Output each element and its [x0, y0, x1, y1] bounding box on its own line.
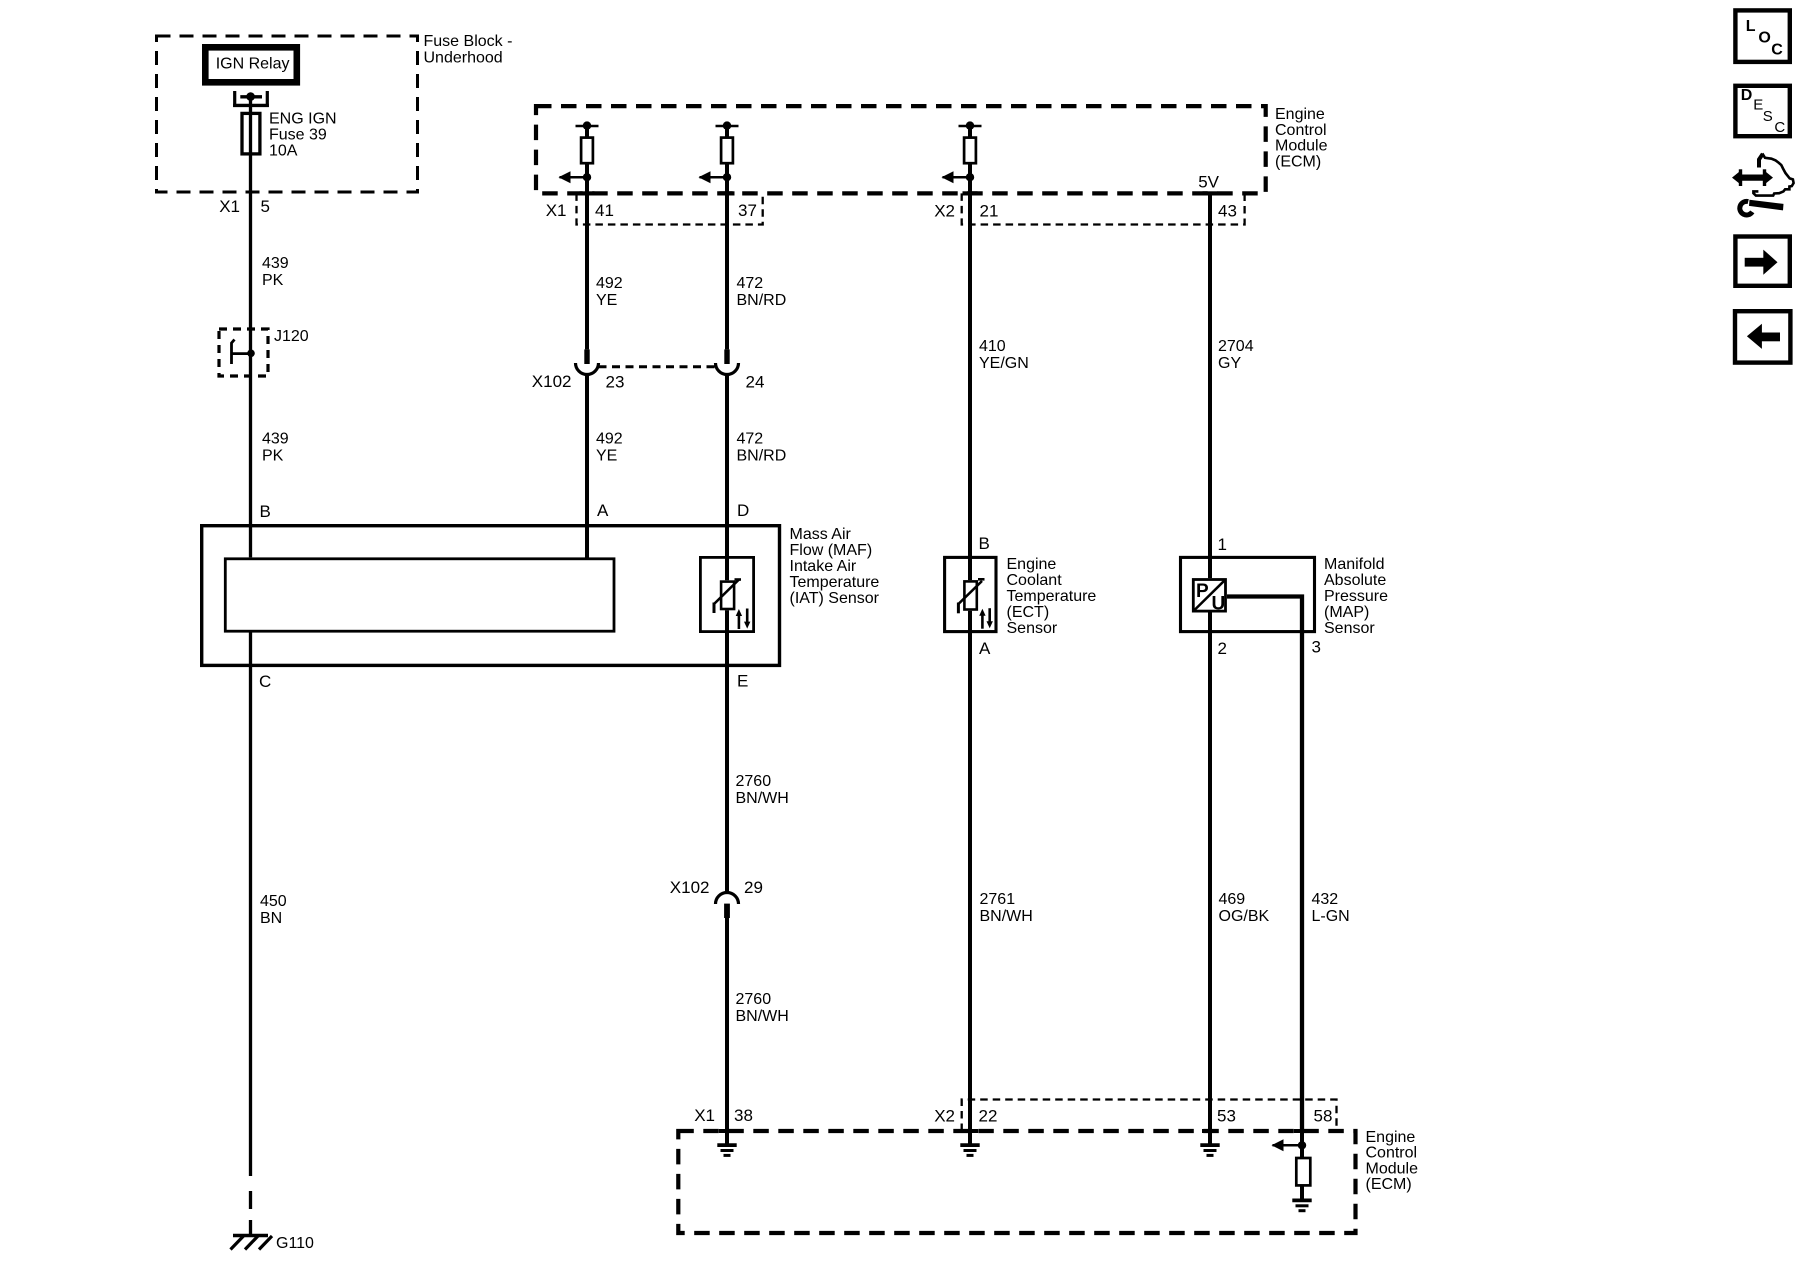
svg-text:Fuse 39: Fuse 39	[269, 127, 327, 144]
svg-text:492: 492	[596, 431, 623, 448]
svg-text:OG/BK: OG/BK	[1219, 908, 1270, 925]
ECT thermistor element	[958, 579, 993, 628]
svg-text:BN/WH: BN/WH	[736, 1008, 789, 1025]
svg-text:24: 24	[746, 373, 765, 392]
svg-text:450: 450	[260, 893, 287, 910]
svg-text:492: 492	[596, 275, 623, 292]
svg-text:439: 439	[262, 431, 289, 448]
relay K: IGN Relay box	[205, 47, 296, 82]
svg-text:A: A	[597, 501, 609, 520]
svg-text:Absolute: Absolute	[1324, 572, 1386, 589]
svg-text:29: 29	[744, 878, 763, 897]
svg-text:22: 22	[979, 1107, 998, 1126]
svg-text:43: 43	[1218, 202, 1237, 221]
svg-text:L: L	[1746, 18, 1756, 35]
svg-text:X1: X1	[219, 197, 240, 216]
svg-text:5V: 5V	[1198, 173, 1219, 192]
ECT sensor box	[945, 557, 996, 631]
svg-text:X2: X2	[934, 202, 955, 221]
ECM box (top): Engine Control Module	[536, 106, 1266, 193]
svg-text:Flow (MAF): Flow (MAF)	[790, 542, 873, 559]
connector X102 pin 23	[584, 349, 589, 364]
wire: 410 YE/GN (pin 21 to ECT pin B)	[968, 193, 972, 580]
pin tick 21	[963, 191, 978, 195]
svg-text:439: 439	[262, 255, 289, 272]
wire: 439 PK ignition feed (fuse through J120 to MAF pin B)	[249, 97, 252, 558]
MAP sensor box	[1181, 557, 1315, 631]
svg-text:Manifold: Manifold	[1324, 556, 1384, 573]
MAP P/U transducer box	[1193, 580, 1225, 612]
svg-text:2704: 2704	[1218, 338, 1254, 355]
svg-text:Temperature: Temperature	[790, 574, 880, 591]
ECM X2 pin box (pins 21 43)	[962, 193, 1245, 224]
svg-text:Fuse Block -: Fuse Block -	[424, 33, 513, 50]
svg-text:U: U	[1212, 594, 1226, 615]
svg-text:(ECM): (ECM)	[1275, 153, 1321, 170]
svg-text:37: 37	[738, 201, 757, 220]
svg-text:A: A	[979, 639, 991, 658]
icon: back arrow button	[1735, 311, 1790, 362]
icon: vehicle location arrow with wrench	[1732, 153, 1794, 215]
svg-text:Engine: Engine	[1007, 556, 1057, 573]
svg-text:C: C	[1771, 42, 1783, 59]
resistor (ECM pull-up) for pin 21	[942, 121, 982, 193]
svg-text:Engine: Engine	[1275, 106, 1325, 123]
fuse F39: ENG IGN Fuse 39 10A	[242, 113, 260, 153]
ECM box (bottom)	[678, 1131, 1355, 1233]
relay contact symbol under IGN Relay	[233, 91, 236, 107]
svg-text:X102: X102	[532, 372, 572, 391]
svg-text:YE/GN: YE/GN	[979, 355, 1029, 372]
svg-text:S: S	[1763, 108, 1773, 125]
svg-text:38: 38	[734, 1106, 753, 1125]
wire: 2760 BN/WH lower (X102-29 to ECM pin 38)	[725, 918, 729, 1131]
resistor (ECM pull-up) for pin 37	[699, 121, 739, 193]
svg-text:G110: G110	[276, 1235, 314, 1252]
ECM X2 pin box (bottom, pins 22 53 58)	[962, 1100, 1337, 1132]
svg-text:53: 53	[1217, 1107, 1236, 1126]
svg-text:Intake Air: Intake Air	[790, 558, 857, 575]
svg-text:Engine: Engine	[1366, 1129, 1416, 1146]
svg-text:B: B	[260, 502, 271, 521]
pin tick 53	[1202, 1129, 1218, 1133]
svg-text:X1: X1	[546, 201, 567, 220]
fuse block box: Fuse Block - Underhood	[157, 36, 418, 192]
svg-text:(ECM): (ECM)	[1366, 1176, 1412, 1193]
svg-text:Temperature: Temperature	[1007, 588, 1097, 605]
wire: 2704 GY (pin 43 to MAP pin 1)	[1208, 193, 1212, 578]
wire: MAP signal out (P/U to pin 3, 432 L-GN)	[1227, 597, 1302, 1132]
svg-text:C: C	[1774, 119, 1785, 136]
svg-text:PK: PK	[262, 448, 284, 465]
svg-text:472: 472	[737, 275, 764, 292]
svg-text:Control: Control	[1275, 122, 1327, 139]
svg-text:1: 1	[1218, 535, 1227, 554]
svg-text:O: O	[1758, 29, 1770, 46]
wire: 2761 BN/WH (ECT pin A to ECM pin 22)	[968, 611, 972, 1131]
IAT thermistor element	[714, 580, 750, 630]
wire: 472 BN/RD upper segment (pin 37 to X102-24)	[725, 193, 729, 349]
wire: 492 YE lower segment (X102-23 to MAF pin A)	[585, 375, 589, 559]
ground (ECM internal) pin 22	[960, 1131, 979, 1155]
svg-text:41: 41	[595, 201, 614, 220]
svg-text:IGN Relay: IGN Relay	[216, 56, 290, 73]
icon: next arrow button	[1735, 237, 1789, 286]
svg-text:58: 58	[1314, 1107, 1333, 1126]
MAF sensor inner element box	[225, 559, 614, 631]
pin tick 43	[1203, 191, 1218, 195]
svg-text:Sensor: Sensor	[1324, 620, 1375, 637]
svg-text:Control: Control	[1366, 1145, 1418, 1162]
svg-text:Module: Module	[1366, 1160, 1419, 1177]
svg-text:J120: J120	[274, 328, 309, 345]
svg-text:PK: PK	[262, 272, 284, 289]
pin tick 41	[580, 191, 595, 195]
wire: MAF pin D through IAT (inside sensor)	[725, 610, 729, 892]
svg-text:432: 432	[1312, 891, 1339, 908]
IAT thermistor box	[700, 557, 753, 631]
svg-text:X2: X2	[934, 1107, 955, 1126]
svg-text:(MAP): (MAP)	[1324, 604, 1369, 621]
svg-text:ENG IGN: ENG IGN	[269, 111, 337, 128]
svg-text:BN: BN	[260, 910, 282, 927]
svg-text:C: C	[259, 672, 271, 691]
ground (ECM internal) pin 53	[1200, 1131, 1219, 1155]
svg-text:23: 23	[606, 373, 625, 392]
wire: 472 BN/RD lower segment (X102-24 to MAF pin D)	[725, 375, 729, 581]
resistor (ECM pull-up) for pin 41	[559, 121, 599, 193]
svg-text:BN/RD: BN/RD	[737, 292, 787, 309]
svg-text:P: P	[1196, 581, 1209, 602]
svg-text:10A: 10A	[269, 143, 298, 160]
connector X102 pin 29	[716, 893, 739, 905]
svg-text:2760: 2760	[736, 773, 772, 790]
svg-text:2761: 2761	[980, 891, 1016, 908]
svg-text:410: 410	[979, 338, 1006, 355]
svg-text:Sensor: Sensor	[1007, 620, 1058, 637]
wire: MAF pin C (ground side inside sensor)	[249, 631, 252, 1176]
svg-text:472: 472	[737, 431, 764, 448]
svg-text:YE: YE	[596, 292, 617, 309]
pin tick 22	[962, 1129, 978, 1133]
svg-text:D: D	[737, 501, 749, 520]
splice J120 dashed box	[219, 329, 268, 376]
svg-text:(ECT): (ECT)	[1007, 604, 1050, 621]
svg-text:2760: 2760	[736, 991, 772, 1008]
svg-text:21: 21	[980, 202, 999, 221]
svg-text:Coolant: Coolant	[1007, 572, 1063, 589]
resistor (ECM internal) at pin 58 with arrow and ground	[1272, 1131, 1312, 1211]
svg-text:5: 5	[261, 197, 270, 216]
svg-text:BN/RD: BN/RD	[737, 448, 787, 465]
svg-text:D: D	[1741, 87, 1753, 104]
svg-text:X102: X102	[670, 878, 710, 897]
svg-text:3: 3	[1312, 638, 1321, 657]
svg-text:BN/WH: BN/WH	[736, 790, 789, 807]
svg-text:GY: GY	[1218, 355, 1241, 372]
svg-text:X1: X1	[694, 1106, 715, 1125]
wire: 450 BN dashed lead to G110	[249, 1191, 252, 1209]
svg-text:E: E	[737, 672, 748, 691]
ground G110 (chassis)	[231, 1236, 273, 1250]
icon: LOC button	[1735, 10, 1789, 62]
connector X102 pin 24	[724, 349, 729, 364]
X102 in-line connector dashed link	[599, 365, 716, 368]
svg-text:B: B	[979, 534, 990, 553]
svg-text:2: 2	[1218, 639, 1227, 658]
pin tick 38	[719, 1129, 735, 1133]
svg-text:469: 469	[1219, 891, 1246, 908]
svg-text:Underhood: Underhood	[424, 50, 503, 67]
MAF sensor outer box	[202, 526, 780, 666]
svg-text:(IAT) Sensor: (IAT) Sensor	[790, 590, 880, 607]
svg-text:BN/WH: BN/WH	[980, 908, 1033, 925]
pin tick 58	[1294, 1129, 1310, 1133]
svg-text:YE: YE	[596, 448, 617, 465]
wire: MAP pin 2 (2760... to ECM 53) 469 OG/BK	[1208, 613, 1212, 1132]
svg-text:L-GN: L-GN	[1312, 908, 1350, 925]
svg-text:Mass Air: Mass Air	[790, 526, 852, 543]
ECM X1 pin box (pins 41 37)	[577, 193, 763, 224]
wire: 492 YE upper segment (pin 41 to X102-23)	[585, 193, 589, 349]
icon: DESC button	[1735, 86, 1789, 136]
svg-text:Module: Module	[1275, 138, 1328, 155]
pin tick 37	[720, 191, 735, 195]
splice J120 symbol	[232, 340, 235, 365]
ground (ECM internal) pin 38	[717, 1131, 736, 1155]
svg-text:Pressure: Pressure	[1324, 588, 1388, 605]
